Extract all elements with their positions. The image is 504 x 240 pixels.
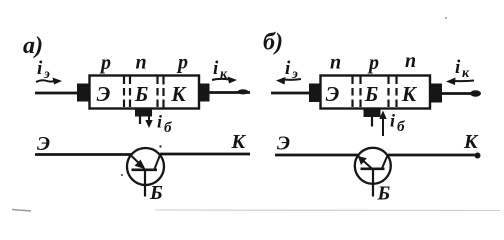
stray ink dot near symbol a top — [159, 145, 161, 147]
arrow i_k left (panel b) — [454, 80, 474, 83]
transistor body box (panel a) — [90, 76, 200, 109]
junction 2 dashed lines (panel b) — [387, 77, 389, 109]
svg-text:б: б — [164, 120, 172, 136]
base contact tab (panel a) — [135, 108, 152, 117]
stray ink dot left of symbol a — [121, 174, 123, 176]
svg-text:i: i — [285, 58, 291, 79]
arrow i_k right (panel a) — [212, 79, 230, 80]
faint scan line bottom left — [12, 210, 31, 212]
collector contact electrode (panel a) — [199, 84, 210, 102]
svg-text:Э: Э — [277, 133, 290, 155]
svg-text:i: i — [213, 58, 219, 79]
svg-text:i: i — [455, 57, 461, 78]
emitter slant with npn arrow (symbol b) — [359, 157, 372, 169]
faint scan line bottom — [155, 209, 500, 212]
svg-text:i: i — [390, 111, 395, 131]
svg-text:к: к — [462, 66, 470, 81]
svg-text:n: n — [405, 50, 416, 72]
collector wire (symbol b) — [388, 154, 478, 157]
svg-text:К: К — [401, 82, 418, 106]
emitter contact electrode (panel a) — [77, 84, 89, 102]
base lead (symbol b) — [372, 169, 374, 197]
collector contact electrode (panel b) — [431, 84, 442, 103]
collector wire (panel b) — [442, 92, 479, 95]
svg-text:б: б — [397, 119, 405, 135]
faint speck top right — [445, 17, 447, 19]
svg-text:К: К — [463, 131, 479, 153]
arrow i_e left (panel b) — [284, 78, 301, 81]
transistor body box (panel b) — [321, 76, 431, 109]
collector slant (symbol a) — [155, 155, 161, 169]
svg-text:p: p — [367, 52, 379, 74]
svg-text:Б: Б — [364, 82, 378, 106]
junction 1 dashed lines (panel a) — [123, 77, 125, 109]
emitter wire (panel a) — [35, 92, 79, 95]
base lead (panel a) — [139, 116, 141, 124]
svg-text:p: p — [176, 52, 188, 74]
emitter contact electrode (panel b) — [309, 84, 320, 103]
arrow i_b up (panel b) — [382, 117, 384, 136]
svg-text:Э: Э — [97, 82, 111, 106]
emitter wire (symbol b) — [275, 154, 358, 157]
svg-text:i: i — [157, 112, 162, 132]
svg-text:Б: Б — [134, 82, 148, 106]
base bar (symbol a) — [132, 168, 158, 171]
svg-text:Б: Б — [149, 182, 163, 204]
emitter wire (panel b) — [271, 92, 310, 95]
svg-text:p: p — [99, 52, 111, 74]
svg-text:К: К — [170, 82, 187, 106]
svg-text:а): а) — [23, 33, 43, 59]
emitter slant with pnp arrow (symbol a) — [132, 156, 144, 168]
collector wire (symbol a) — [160, 153, 250, 156]
svg-text:б): б) — [263, 30, 283, 56]
svg-text:n: n — [135, 52, 146, 74]
collector slant (symbol b) — [382, 156, 388, 169]
arrow i_b down (panel a) — [148, 111, 150, 122]
svg-text:Б: Б — [377, 183, 391, 205]
base lead (panel b) — [371, 117, 373, 127]
svg-text:К: К — [231, 131, 247, 153]
svg-text:Э: Э — [326, 82, 340, 106]
collector wire (panel a) — [209, 91, 250, 94]
svg-text:Э: Э — [37, 133, 50, 155]
transistor circle (symbol b) — [355, 148, 391, 184]
svg-text:n: n — [330, 52, 341, 74]
emitter wire (symbol a) — [35, 153, 132, 156]
junction 2 dashed lines (panel a) — [156, 77, 158, 109]
base lead (symbol a) — [144, 170, 146, 197]
base contact tab (panel b) — [364, 109, 381, 118]
arrow i_e right (panel a) — [36, 80, 55, 82]
junction 1 dashed lines (panel b) — [351, 77, 353, 109]
svg-text:i: i — [37, 58, 43, 79]
base bar (symbol b) — [361, 167, 385, 170]
transistor circle (symbol a) — [127, 148, 164, 185]
